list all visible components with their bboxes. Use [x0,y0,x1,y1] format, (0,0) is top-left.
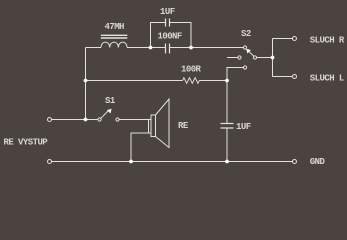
switch S2 top contact [243,46,246,49]
node junction S1 rail at left vertical [84,118,88,122]
svg-text:100NF: 100NF [158,32,182,42]
wire top rail left segment [86,47,102,49]
wire S2 pole to right branch [257,57,273,59]
node junction resistor / S2 / C3 [225,79,229,83]
wire coil to cap branch [127,47,165,49]
switch S2 lever [249,52,254,57]
wire node to capacitor C3 [226,81,228,124]
svg-text:RE: RE [178,121,189,131]
speaker RE body rect [151,115,156,137]
wire cap C2 to switch S2 top contact [170,47,244,49]
wire to SLUCH L terminal [273,76,293,78]
wire 1UF branch right-down [170,23,192,48]
svg-text:47MH: 47MH [105,22,125,32]
wire resistor rail left [86,80,183,82]
wire capacitor C3 to ground rail [226,128,228,162]
switch S1 right contact [116,118,119,121]
svg-text:100R: 100R [181,65,202,75]
wire ground rail [52,161,293,163]
wire right branch vertical [272,39,274,77]
switch S1 left contact [98,118,101,121]
wire S1 to speaker [119,119,148,121]
svg-text:GND: GND [310,157,326,167]
switch S2 pole contact [253,56,256,59]
wire resistor to node [199,80,227,82]
capacitor C1 1UF plates [166,19,170,27]
wire 1UF branch up-left [151,23,166,48]
node junction speaker on ground rail [129,160,133,164]
node junction caps right [189,46,193,50]
terminal bottom left [48,160,52,164]
speaker RE magnet bracket [149,120,152,134]
switch S1 lever [101,110,109,118]
svg-text:1UF: 1UF [160,7,175,17]
resistor R1 100R zigzag [183,78,200,84]
switch S2 bottom contact [243,66,246,69]
speaker RE cone [156,99,170,148]
terminal SLUCH L [293,75,297,79]
node junction caps left [149,46,153,50]
node junction S2 pole branch [271,56,275,60]
node junction C3 on ground rail [225,160,229,164]
terminal RE VYSTUP [48,118,52,122]
svg-text:RE VYSTUP: RE VYSTUP [4,137,49,147]
svg-text:1UF: 1UF [236,122,251,132]
switch S1 lever arrowhead [107,109,112,114]
node junction resistor rail at left vertical [84,79,88,83]
svg-text:S2: S2 [241,29,251,39]
capacitor C3 1UF plates [221,124,234,129]
wire speaker bottom to ground rail [131,133,149,162]
switch S2 middle contact [238,56,241,59]
inductor L1 core lines [101,35,128,38]
wire RE VYSTUP terminal to S1 [52,119,98,121]
svg-text:SLUCH R: SLUCH R [310,35,345,45]
wire to SLUCH R terminal [273,38,293,40]
terminal GND [293,160,297,164]
wire left vertical [85,48,87,120]
inductor L1 coil [101,42,127,47]
wire S2 bottom contact to node [227,68,243,81]
switch S2 lever arrowhead [246,49,251,54]
svg-text:S1: S1 [105,96,116,106]
wire S2 middle stub [227,57,238,59]
svg-text:SLUCH L: SLUCH L [310,73,344,83]
capacitor C2 100NF plates [166,44,170,54]
terminal SLUCH R [293,37,297,41]
